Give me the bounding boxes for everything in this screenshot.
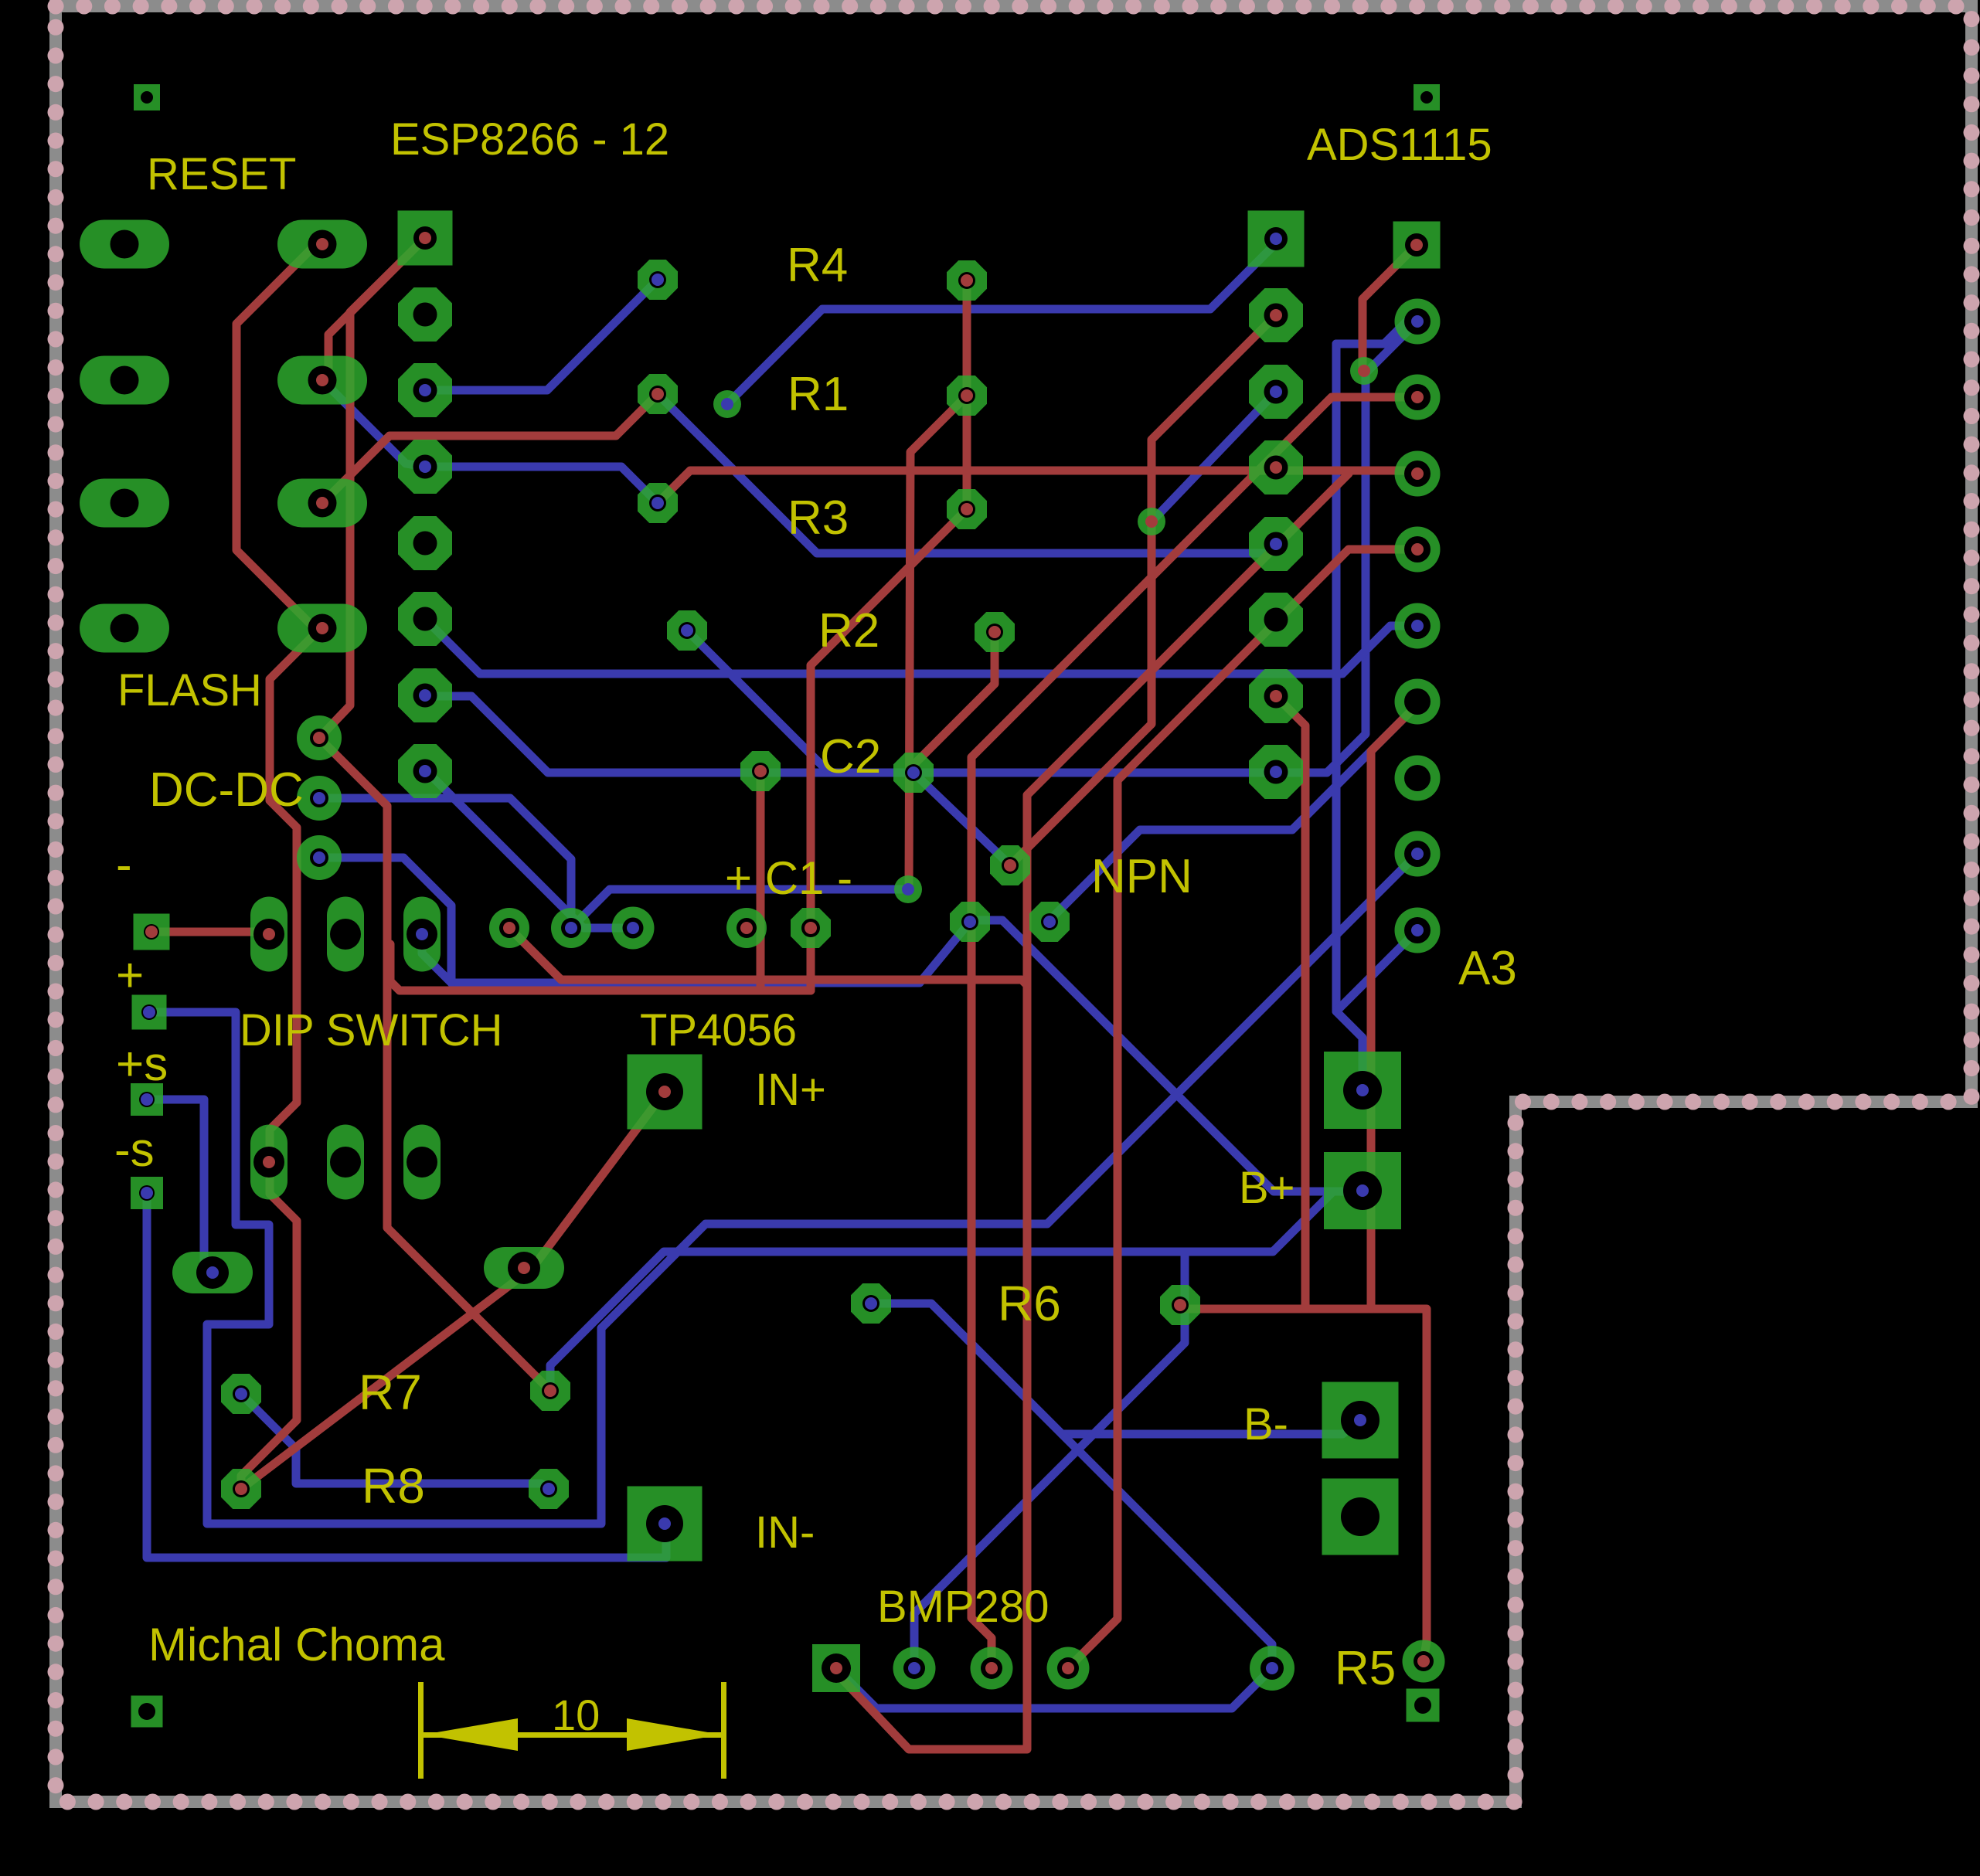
pad R4 pad 2 <box>947 260 987 301</box>
pad DIP switch top pad1 <box>250 897 287 972</box>
pad terminal plus-s <box>131 1083 163 1116</box>
wire minus terminal to DIP1 <box>151 928 255 936</box>
pad NPN collector pad <box>1029 902 1070 942</box>
wire col2row2 to ESP pin4 <box>322 380 425 467</box>
pad terminal minus-s <box>131 1177 163 1209</box>
wire ESPright1 to NPN base <box>1010 315 1276 865</box>
pad DC-DC pad1 <box>297 715 342 760</box>
wire plus-s terminal to stadium <box>147 1099 204 1273</box>
wire R3R to C1 minus diag <box>811 509 967 991</box>
dimension tick right <box>721 1682 726 1779</box>
pad ESP bottom pad2 <box>551 908 591 948</box>
pad ESP8266 left pin4 <box>398 440 452 494</box>
wire R6L to B- and ring <box>871 1303 1363 1434</box>
svg-text:10: 10 <box>552 1691 600 1739</box>
pad DIP switch bottom pad1 <box>250 1125 287 1200</box>
svg-text:RESET: RESET <box>147 149 296 199</box>
pad connector pad x161 y651 <box>80 479 169 528</box>
pad fiducial top-right <box>1414 84 1440 110</box>
pad via near ADS <box>1350 357 1378 385</box>
pad ADS1115 pin3 ring <box>1395 375 1441 420</box>
wire NPN left to B+ diag <box>970 920 1349 1191</box>
pad ADS1115 pin10 ring <box>1395 908 1441 953</box>
pad fiducial top-left <box>134 84 160 110</box>
pad R7 pad 1 <box>221 1374 261 1414</box>
dimension line <box>424 1732 721 1738</box>
pad R4 pad 1 <box>638 260 678 300</box>
svg-text:IN-: IN- <box>755 1507 815 1558</box>
pad ADS1115 pin8 ring <box>1395 756 1441 801</box>
wire col2row1 stair to R8L <box>236 243 318 1489</box>
svg-text:R5: R5 <box>1335 1642 1396 1695</box>
wire DCDC pad3 stub <box>319 858 451 983</box>
pad connector pad x161 y316 <box>80 220 169 269</box>
wire ESP sq jog to col2row2 <box>322 238 425 380</box>
pad ESP8266 right pin7 <box>1249 669 1303 723</box>
wire ESP pin4 to R3 left <box>425 467 658 503</box>
pad DIP switch top pad3 <box>403 897 441 972</box>
wire C1 net horizontal <box>390 944 811 991</box>
wire ESPright pin2 to via2 <box>1152 392 1276 522</box>
wire R2R to C2R <box>913 632 995 773</box>
pad terminal plus <box>132 995 167 1030</box>
pad C1 via <box>894 875 922 903</box>
svg-text:R7: R7 <box>359 1365 422 1420</box>
svg-text:IN+: IN+ <box>755 1065 826 1115</box>
svg-text:R1: R1 <box>788 368 849 421</box>
pad via near R1 <box>713 390 741 418</box>
pad connector pad x417 y651 <box>277 479 367 528</box>
pad DC-DC pad3 <box>297 835 342 880</box>
wire R7L to R8R <box>241 1394 549 1489</box>
svg-text:-s: -s <box>114 1123 155 1177</box>
svg-text:ESP8266 - 12: ESP8266 - 12 <box>390 114 669 165</box>
pad ESP8266 pin1 square <box>398 211 453 266</box>
svg-text:+: + <box>116 949 144 1002</box>
pad ESP8266 left pin3 <box>398 363 452 417</box>
pad C2 pad 1 <box>740 751 781 791</box>
pad NPN emitter pad <box>950 902 990 942</box>
pad C2 pad 2 <box>893 753 934 793</box>
pad BMP280 pin1 square <box>812 1644 860 1692</box>
pad R6 pad 2 <box>1160 1285 1200 1325</box>
pad R3 pad 1 <box>638 483 678 523</box>
wire R2 left to GND bus <box>687 630 829 773</box>
wire R6 net to R5 <box>1180 1309 1427 1661</box>
pad R1 pad 2 <box>947 376 987 416</box>
pad ADS1115 pin1 square <box>1393 222 1441 269</box>
wire ESP6 to ADS ring5 long <box>425 619 1417 674</box>
pad fiducial bottom-right <box>1407 1689 1440 1722</box>
dimension arrowhead left <box>424 1718 518 1751</box>
wire DIP3 to NPN left <box>422 922 970 983</box>
svg-text:+s: +s <box>116 1038 168 1091</box>
pad ESP8266 right pin1 square <box>1248 211 1305 267</box>
pad TP4056 BAT stadium right <box>484 1247 564 1289</box>
pad BMP280 pin3 <box>971 1647 1013 1690</box>
wire C2L down to C1 net <box>757 771 765 991</box>
wire ESP pin8 to pad row <box>425 770 633 928</box>
pad BMP280 pin4 <box>1047 1647 1090 1690</box>
svg-text:B-: B- <box>1243 1399 1288 1449</box>
wire A3 B+ vertical top <box>1336 317 1417 344</box>
wire ring1646 to BMP sq <box>836 1668 1272 1708</box>
wire DCDC pad2 to pad row <box>319 798 571 928</box>
pad DIP switch bottom pad2 <box>327 1125 364 1200</box>
wire R4R through R1R to R3R <box>963 280 971 505</box>
svg-text:R8: R8 <box>362 1458 425 1514</box>
pad ESP8266 right pin6 <box>1249 593 1303 647</box>
wire ADS sq to via <box>1363 245 1417 371</box>
wire ADS ring2 to BMP ring2 <box>971 397 1417 1668</box>
svg-text:+ C1 -: + C1 - <box>725 852 852 904</box>
wire pad row ring1 rail <box>509 928 1027 985</box>
pad ESP8266 right pin3 <box>1249 365 1303 419</box>
pad terminal minus <box>134 914 170 950</box>
wire via to ESP right sq <box>727 243 1276 404</box>
pad B- pad1 <box>1322 1382 1399 1459</box>
pad B- pad2 <box>1322 1479 1399 1555</box>
svg-text:ADS1115: ADS1115 <box>1307 120 1492 170</box>
pad R2 pad 2 <box>975 612 1015 652</box>
wire plus terminal staircase to ADS A2 <box>149 854 1417 1524</box>
pad connector pad x161 y492 <box>80 356 169 405</box>
pad via2 center <box>1138 508 1165 535</box>
pad R7 pad 2 <box>530 1371 570 1411</box>
pad ADS1115 pin5 ring <box>1395 527 1441 573</box>
svg-text:DIP SWITCH: DIP SWITCH <box>240 1005 503 1055</box>
wire R1R to C1 via <box>909 396 967 889</box>
svg-text:DC-DC: DC-DC <box>149 763 304 817</box>
dimension arrowhead right <box>627 1718 721 1751</box>
pad R2 pad 1 <box>667 610 707 651</box>
pad R5 pad <box>1403 1640 1445 1683</box>
pad R8 pad 1 <box>221 1469 261 1509</box>
wire BMP ring1 diag up <box>914 1252 1185 1668</box>
svg-text:A3: A3 <box>1458 942 1517 995</box>
pad TP4056 BAT stadium left <box>172 1252 253 1293</box>
wire R6 branch to ring1646 <box>1062 1434 1272 1668</box>
pad BMP280 pin2 <box>893 1647 936 1690</box>
wire ESPright pin7 to R6 rail <box>1276 696 1305 1309</box>
pad ESP8266 left pin5 <box>398 516 452 570</box>
pad connector pad x417 y813 <box>277 604 367 653</box>
wire A3 B+ vertical <box>1336 344 1363 1086</box>
wire ring A3 to B+ vertical <box>1336 930 1417 1011</box>
pad C1 plus pad <box>726 908 767 948</box>
pad ESP8266 left pin2 <box>398 287 452 342</box>
pad DC-DC pad2 <box>297 776 342 821</box>
svg-text:TP4056: TP4056 <box>640 1005 797 1055</box>
wire ESP pin3 to R4 left <box>425 280 658 390</box>
pad ESP8266 right pin5 <box>1249 517 1303 571</box>
pad ADS1115 pin7 ring <box>1395 679 1441 725</box>
svg-text:C2: C2 <box>820 730 881 783</box>
pad ADS1115 pin4 ring <box>1395 451 1441 497</box>
pad connector pad x161 y813 <box>80 604 169 653</box>
pad TP4056 IN+ pad <box>628 1055 703 1130</box>
wire DCDC1 to R7R <box>319 238 425 738</box>
wire ADS ring3 branch to BMP sq <box>836 474 1349 1749</box>
svg-text:R4: R4 <box>787 239 848 292</box>
pad ESP bottom pad1 <box>489 908 529 948</box>
pad DIP switch top pad2 <box>327 897 364 972</box>
pad R6 pad 1 <box>851 1283 891 1324</box>
pad TP4056 IN- pad <box>628 1487 703 1562</box>
pad ADS1115 pin2 ring <box>1395 299 1441 345</box>
svg-text:FLASH: FLASH <box>117 665 262 715</box>
wire IN+ to R8L <box>241 1092 665 1489</box>
pad ADS1115 pin6 ring <box>1395 603 1441 649</box>
pad DIP switch bottom pad3 <box>403 1125 441 1200</box>
pad node ring near R5 <box>1250 1646 1294 1691</box>
pad NPN base pad <box>990 845 1030 885</box>
pad ESP bottom pad3 <box>612 907 655 950</box>
wire NPN right to ADS ring6 <box>1050 705 1417 920</box>
svg-text:R2: R2 <box>818 604 879 658</box>
pad connector pad x417 y316 <box>277 220 367 269</box>
svg-text:B+: B+ <box>1239 1163 1295 1213</box>
pad ESP8266 left pin8 <box>398 744 452 798</box>
svg-text:-: - <box>116 838 132 892</box>
pad ESP8266 right pin8 <box>1249 745 1303 799</box>
pad connector pad x417 y492 <box>277 356 367 405</box>
pad ADS1115 pin9 ring <box>1395 831 1441 877</box>
wire pad row to C1 via <box>571 889 908 928</box>
wire C2R to NPN top <box>913 773 1010 865</box>
svg-text:Michal Choma: Michal Choma <box>148 1619 445 1670</box>
wire col2row3 to R1 left <box>322 394 658 503</box>
wire R3L to ADS ring3 long <box>658 471 1417 503</box>
pad B+ pad1 <box>1324 1052 1401 1129</box>
svg-text:R3: R3 <box>788 491 849 545</box>
wire R7R to Bplus rail <box>550 1191 1351 1391</box>
pad ESP8266 right pin2 <box>1249 288 1303 342</box>
wire DCDC1 down to R7R <box>319 738 550 1391</box>
svg-text:R6: R6 <box>998 1276 1061 1331</box>
svg-text:BMP280: BMP280 <box>877 1582 1049 1632</box>
wire R1L diag to ESPright4 long <box>658 394 1276 553</box>
pad ESP8266 left pin7 <box>398 668 452 722</box>
wire minus-s terminal to IN- <box>147 1193 666 1558</box>
pad R8 pad 2 <box>529 1469 569 1509</box>
wire ADS ring6 to R6 rail <box>1371 705 1417 1309</box>
pad ESP8266 left pin6 <box>398 592 452 646</box>
pad R3 pad 2 <box>947 489 987 529</box>
wire GND bus ESP7-C2-ADS1 <box>425 321 1417 773</box>
wire B- wire <box>1198 1430 1342 1439</box>
pad fiducial bottom-left <box>131 1696 163 1728</box>
pad B+ pad2 <box>1324 1152 1401 1229</box>
wire ADS ring4 to BMP ring3 <box>1068 549 1417 1668</box>
svg-text:NPN: NPN <box>1091 850 1192 903</box>
pad ESP8266 right pin4 <box>1249 440 1303 494</box>
pad R1 pad 1 <box>638 374 678 414</box>
pad C1 minus pad <box>791 908 831 948</box>
dimension tick left <box>418 1682 424 1779</box>
